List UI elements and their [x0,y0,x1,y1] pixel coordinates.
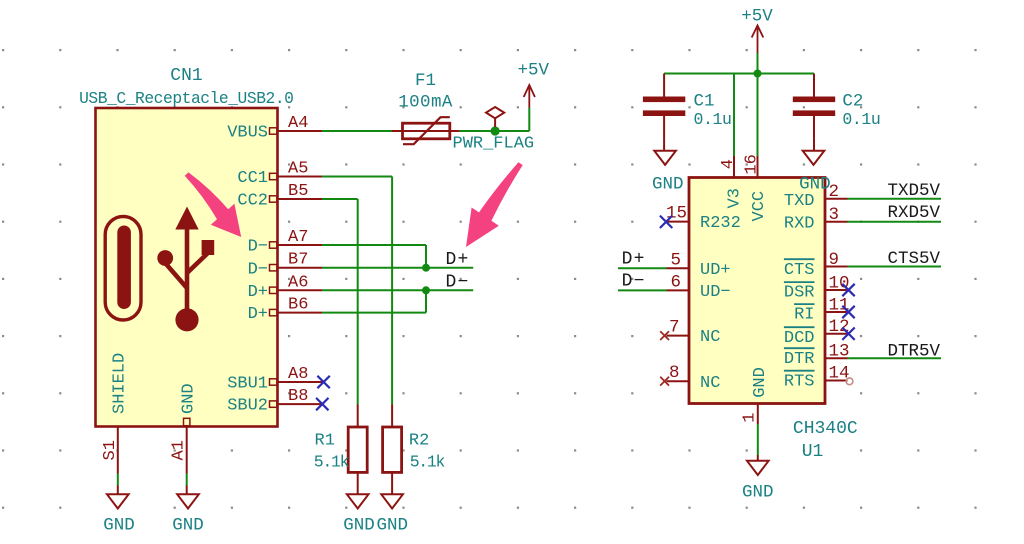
wire A1 to ground [186,474,188,486]
wire CC1 vertical to R2 [391,177,393,405]
U1 pin 15 (R232) [666,204,741,234]
wire pin 1 to ground [757,424,759,455]
svg-text:R2: R2 [409,431,429,450]
no-connect flag on pin 10 [842,284,854,296]
svg-text:S1: S1 [101,440,120,460]
svg-text:5.1k: 5.1k [314,453,350,472]
svg-text:CN1: CN1 [170,66,202,86]
ground symbol S1 [107,486,129,509]
junction at D+ net [422,264,430,272]
wire CC1 horizontal [322,176,392,178]
wire D- A7 horizontal [322,244,426,246]
wire fuse to +5V [460,130,530,132]
svg-text:CC1: CC1 [237,169,268,188]
svg-text:1: 1 [740,412,759,422]
svg-text:R232: R232 [700,214,741,233]
connector CN1 body [96,108,278,427]
no-connect flag on pin 12 [842,328,854,340]
svg-text:8: 8 [669,363,680,383]
svg-text:SBU2: SBU2 [227,397,268,416]
U1 pin 11 (RI) [794,296,849,325]
svg-text:C2: C2 [842,92,863,112]
capacitor C1 [643,74,685,139]
U1 pin 14 (RTS) [784,364,850,392]
svg-text:RXD5V: RXD5V [887,203,940,223]
svg-text:D+: D+ [622,250,646,270]
svg-text:GND: GND [180,383,199,414]
svg-text:GND: GND [343,516,375,536]
no-connect flag on SBU1 [317,376,329,388]
ground symbol R2 [381,494,403,508]
svg-text:10: 10 [829,274,850,294]
ground symbol C2 [803,151,825,165]
svg-text:7: 7 [669,318,680,338]
CN1 pin A6 (D+) [248,273,322,302]
svg-text:CTS5V: CTS5V [887,249,940,269]
svg-text:5.1k: 5.1k [410,453,446,472]
wire pin 2 to TXD5V [848,198,942,200]
svg-text:5: 5 [670,250,681,270]
fuse F1 leads and element [392,130,460,132]
svg-text:A1: A1 [170,440,189,460]
capacitor C2 [793,74,835,139]
wire D- B7 to net D+ [322,267,473,269]
wire pin 3 to RXD5V [848,221,942,223]
svg-text:+5V: +5V [518,61,550,81]
U1 pin 10 (DSR) [784,274,850,303]
CN1 pin B7 (D-) [248,251,322,280]
svg-text:100mA: 100mA [398,93,453,113]
wire +5V rail horizontal [664,73,814,75]
svg-text:0.1u: 0.1u [842,110,880,129]
CN1 pin S1 (SHIELD) [101,353,130,474]
svg-text:GND: GND [103,516,135,536]
svg-text:DTR5V: DTR5V [887,341,940,361]
unconnected-pin x on pin 8 [660,377,669,386]
wire +5V (left) [528,108,530,132]
svg-text:VCC: VCC [750,191,769,222]
svg-text:VBUS: VBUS [227,124,268,143]
unconnected-pin circle on pin 14 [846,378,853,385]
resistor R1 [348,405,367,495]
svg-text:TXD5V: TXD5V [887,181,940,201]
U1 pin 16 (VCC) [743,154,770,221]
U1 pin 7 (NC) [667,318,721,348]
unconnected-pin x on pin 7 [660,331,669,340]
svg-text:DSR: DSR [784,284,815,303]
CN1 pin A8 (SBU1) [227,365,322,394]
U1 pin 12 (DCD) [784,317,850,348]
svg-text:D+: D+ [248,283,268,302]
wire C2 to ground [813,138,815,150]
fuse F1 body [403,123,450,139]
ground symbol C1 [654,151,676,165]
junction +5V rail [754,70,762,78]
svg-text:6: 6 [670,272,681,292]
svg-text:0.1u: 0.1u [694,110,732,129]
resistor R2 [383,405,402,495]
U1 pin 2 (TXD) [784,182,848,211]
CN1 pin B5 (CC2) [237,182,322,211]
svg-text:A6: A6 [288,273,308,292]
svg-text:13: 13 [829,341,850,361]
svg-text:A8: A8 [288,365,308,384]
svg-text:+5V: +5V [741,7,773,27]
wire rail to pin 4 [733,74,735,157]
CN1 pin A4 (VBUS) [227,114,322,143]
IC U1 body [689,178,825,404]
CN1 pin A7 (D-) [248,228,322,257]
svg-text:GND: GND [751,367,770,398]
ground symbol U1 [747,455,769,475]
svg-text:NC: NC [700,374,720,393]
CN1 pin A1 (GND) [170,383,199,473]
svg-text:R1: R1 [315,431,335,450]
ground symbol A1 [177,486,199,509]
power symbol +5V (left) [524,85,535,108]
ground symbol R1 [347,494,369,508]
svg-text:USB_C_Receptacle_USB2.0: USB_C_Receptacle_USB2.0 [79,89,293,108]
svg-text:A4: A4 [288,114,308,133]
PWR_FLAG symbol [486,107,504,127]
wire D+ A6 to net D- [322,289,473,291]
svg-text:B7: B7 [288,251,308,270]
wire C1 to ground [663,138,665,150]
wire D- A7 drop to B7 [425,245,427,268]
svg-text:F1: F1 [415,71,436,91]
USB trident icon [157,207,214,332]
svg-text:3: 3 [829,205,840,225]
svg-text:A5: A5 [288,160,308,179]
svg-text:4: 4 [719,159,738,169]
wire pin 13 to DTR5V [848,357,942,359]
wire pin 9 to CTS5V [848,266,942,268]
svg-text:RXD: RXD [784,214,815,233]
svg-text:V3: V3 [726,188,745,208]
svg-text:RI: RI [794,306,814,325]
USB-C connector icon (capsule) [105,217,141,321]
svg-text:B6: B6 [288,296,308,315]
wire D+ B6 horizontal [322,312,426,314]
U1 pin 4 (V3) [719,156,744,209]
wire VBUS to fuse [322,130,393,132]
power symbol +5V (right) [752,26,764,54]
U1 pin 5 (UD+) [667,250,731,280]
no-connect flag on pin 15 [660,216,672,228]
junction at D- net [422,286,430,294]
U1 pin 13 (DTR) [784,341,850,369]
U1 pin 6 (UD-) [667,272,731,302]
wire +5V stem (right) [757,53,759,74]
svg-text:SBU1: SBU1 [227,375,268,394]
CN1 pin B6 (D+) [248,296,322,325]
svg-text:GND: GND [377,516,409,536]
U1 pin 9 (CTS) [784,250,848,280]
no-connect flag on pin 11 [842,306,854,318]
svg-text:TXD: TXD [784,192,815,211]
svg-text:D−: D− [248,238,268,257]
svg-text:UD−: UD− [700,283,731,302]
svg-text:PWR_FLAG: PWR_FLAG [453,135,535,154]
svg-text:U1: U1 [802,442,824,462]
wire D+ B6 rise to A6 [425,290,427,312]
svg-text:B8: B8 [288,387,308,406]
U1 pin 1 (GND) [740,367,770,424]
svg-text:2: 2 [829,182,840,202]
svg-text:GND: GND [652,175,684,195]
svg-text:DCD: DCD [784,329,815,348]
svg-text:NC: NC [700,328,720,347]
svg-text:DTR: DTR [784,350,815,369]
svg-text:SHIELD: SHIELD [111,353,130,414]
CN1 pin A5 (CC1) [237,160,322,189]
wire CC2 horizontal [322,198,358,200]
wire CC2 vertical to R1 [357,199,359,405]
svg-text:GND: GND [172,516,204,536]
svg-text:UD+: UD+ [700,261,731,280]
svg-text:CC2: CC2 [237,192,268,211]
svg-text:12: 12 [829,317,850,337]
CN1 pin B8 (SBU2) [227,387,322,416]
svg-text:C1: C1 [694,92,715,112]
U1 pin 8 (NC) [667,363,721,393]
no-connect flag on SBU2 [316,398,328,410]
svg-text:D−: D− [248,260,268,279]
annotation arrow 1 (points to D- pin) [185,172,242,237]
svg-text:CH340C: CH340C [793,419,858,439]
wire S1 to ground [117,474,119,486]
svg-text:16: 16 [743,154,762,174]
svg-text:GND: GND [742,483,774,503]
svg-text:D−: D− [622,272,646,292]
svg-text:RTS: RTS [784,372,815,391]
wire rail to pin 16 [757,74,759,157]
svg-text:D−: D− [446,273,470,293]
svg-text:D+: D+ [446,250,470,270]
svg-text:D+: D+ [248,305,268,324]
wire net D- to pin 6 [618,289,667,291]
fuse F1 polyfuse slash [403,117,450,144]
svg-text:B5: B5 [288,182,308,201]
svg-text:A7: A7 [288,228,308,247]
U1 pin 3 (RXD) [784,205,848,233]
junction at PWR_FLAG [491,126,500,135]
svg-text:CTS: CTS [784,261,815,280]
annotation arrow 2 (points to D+ label) [466,162,523,247]
svg-text:15: 15 [666,204,687,224]
svg-text:11: 11 [829,296,850,316]
svg-text:9: 9 [829,250,840,270]
wire net D+ to pin 5 [618,267,667,269]
